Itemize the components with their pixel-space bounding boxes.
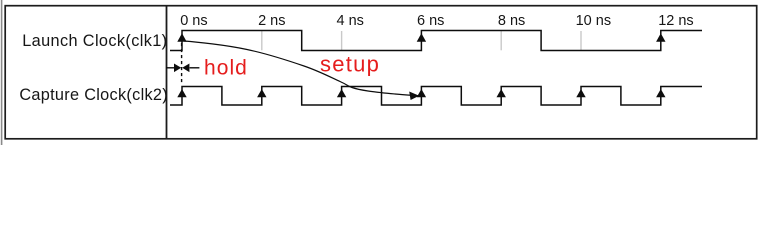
hold arrow left tail <box>166 67 175 69</box>
grid tick 2 ns <box>261 31 263 50</box>
grid tick 4 ns <box>341 31 343 50</box>
clk2 rising-edge arrow at 12 ns <box>656 89 665 97</box>
hold arrowhead pointing left <box>182 64 189 73</box>
grid tick 8 ns <box>500 31 502 50</box>
clk2 rising-edge arrow at 6 ns <box>417 89 426 97</box>
label/wave separator <box>166 6 168 139</box>
setup arc from clk1 edge 0ns to clk2 edge 6ns <box>184 41 418 96</box>
hold arrow right tail <box>190 67 200 69</box>
svg-text:8 ns: 8 ns <box>498 13 525 29</box>
grid tick 10 ns <box>580 31 582 50</box>
svg-text:Capture Clock(clk2): Capture Clock(clk2) <box>19 86 168 104</box>
dashed edge reference line at 0 ns <box>181 43 183 83</box>
clk2 rising-edge arrow at 0 ns <box>177 89 186 97</box>
svg-text:4 ns: 4 ns <box>337 13 364 29</box>
clk2 rising-edge arrow at 4 ns <box>337 89 346 97</box>
clk1 rising-edge arrow at 12 ns <box>656 33 665 42</box>
svg-text:12 ns: 12 ns <box>658 13 693 29</box>
capture clock clk2 waveform <box>170 87 702 106</box>
svg-text:0 ns: 0 ns <box>180 13 207 29</box>
svg-text:Launch Clock(clk1): Launch Clock(clk1) <box>22 32 167 50</box>
clk2 rising-edge arrow at 8 ns <box>497 89 506 97</box>
left window edge grey line <box>1 0 3 145</box>
svg-text:hold: hold <box>204 57 248 80</box>
clk1 rising-edge arrow at 0 ns <box>177 33 186 42</box>
svg-text:6 ns: 6 ns <box>417 13 444 29</box>
hold arrowhead pointing right <box>174 64 181 73</box>
clk1 rising-edge arrow at 6 ns <box>417 33 426 42</box>
clk2 rising-edge arrow at 10 ns <box>576 89 585 97</box>
outer frame <box>5 6 757 139</box>
launch clock clk1 waveform <box>170 31 702 51</box>
setup arc arrowhead <box>409 92 419 101</box>
svg-text:2 ns: 2 ns <box>258 13 285 29</box>
svg-text:setup: setup <box>320 51 380 76</box>
svg-text:10 ns: 10 ns <box>576 13 611 29</box>
clk2 rising-edge arrow at 2 ns <box>257 89 266 97</box>
